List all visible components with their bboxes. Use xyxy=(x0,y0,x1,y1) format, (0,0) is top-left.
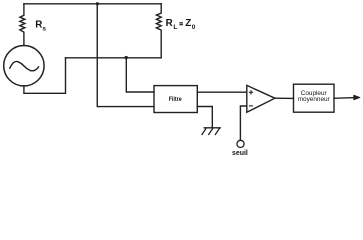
svg-text:R: R xyxy=(35,19,42,30)
pin - label xyxy=(249,105,252,107)
wire top rail xyxy=(24,3,161,5)
svg-text:moyenneur: moyenneur xyxy=(298,96,331,103)
equals sign xyxy=(179,23,183,25)
AC source V1 xyxy=(4,45,44,85)
coupler block xyxy=(294,84,335,112)
svg-text:s: s xyxy=(42,25,46,32)
svg-text:seuil: seuil xyxy=(232,148,248,157)
wire source bottom to mid-rail riser xyxy=(24,58,66,94)
node junction top rail xyxy=(96,2,99,5)
svg-text:0: 0 xyxy=(192,24,196,31)
op-amp comparator U1 xyxy=(247,85,275,112)
sine symbol xyxy=(10,61,39,70)
wire mid rail xyxy=(66,57,162,59)
terminal seuil xyxy=(237,140,244,147)
resistor Rs xyxy=(20,4,25,46)
filter block xyxy=(154,86,197,113)
svg-text:Z: Z xyxy=(185,18,191,29)
wire filter output to comparator xyxy=(197,91,247,93)
wire filter to ground xyxy=(197,107,212,128)
svg-text:L: L xyxy=(173,24,177,31)
wire comparator output xyxy=(275,97,294,99)
wire bottom node down to filter upper input xyxy=(126,58,154,92)
node junction mid rail xyxy=(125,56,128,59)
pin + label xyxy=(249,91,252,94)
ground xyxy=(202,128,220,135)
resistor RL xyxy=(156,4,161,58)
wire top node down to filter lower input xyxy=(97,4,154,107)
arrowhead xyxy=(354,95,360,100)
wire final output xyxy=(334,97,355,100)
wire seuil terminal to inverting input xyxy=(240,106,246,140)
svg-text:R: R xyxy=(166,18,173,29)
svg-text:Filtre: Filtre xyxy=(169,96,182,103)
